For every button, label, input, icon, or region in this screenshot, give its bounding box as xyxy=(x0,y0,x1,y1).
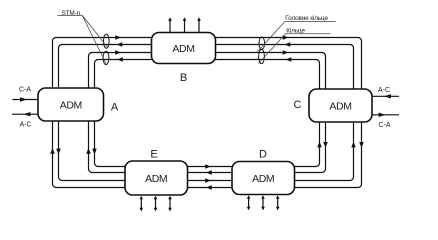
tributary ports node D (3 double-headed arrows) xyxy=(249,198,278,207)
svg-text:ADM: ADM xyxy=(172,43,194,55)
svg-text:C: C xyxy=(294,99,302,111)
arrowheads on A-B wires (top-left segment) xyxy=(115,35,123,62)
port A-C into node C (right side input arrow) xyxy=(372,87,399,99)
svg-text:ADM: ADM xyxy=(252,173,274,185)
svg-text:A: A xyxy=(111,102,119,114)
arrowheads on D-E wires (bottom segment) xyxy=(205,164,212,190)
port A-C out of node A (left side output arrow) xyxy=(12,112,38,129)
ADM node A (box UA) xyxy=(38,88,104,121)
label Кільце (secondary ring) with callout leader xyxy=(259,27,331,64)
svg-text:А-С: А-С xyxy=(378,87,390,94)
ADM node C (box UC) xyxy=(309,89,372,122)
svg-text:Головне кільце: Головне кільце xyxy=(285,14,328,22)
tributary ports node E (3 double-headed arrows) xyxy=(141,199,170,209)
wire outer ring line 2 (closed loop) xyxy=(59,45,354,181)
svg-text:ADM: ADM xyxy=(145,173,167,185)
wire inner ring line 1 (closed loop) xyxy=(89,53,326,173)
fibre bundle marker left lower (ellipse around inner ring pair) xyxy=(103,51,109,64)
wire outer ring line 1 (closed loop) xyxy=(53,38,362,188)
label STM-n with callout leader lines xyxy=(58,10,108,64)
arrowheads on B-C wires (top-right segment) xyxy=(283,35,292,62)
svg-text:STM-n: STM-n xyxy=(62,10,81,17)
port C-A out of node C (right side output arrow) xyxy=(372,113,399,129)
label Головне кільце (main ring) with callout leader xyxy=(258,14,336,51)
fibre bundle marker right lower (ellipse around inner ring pair) xyxy=(259,49,265,63)
svg-text:C-A: C-A xyxy=(19,87,31,94)
svg-text:ADM: ADM xyxy=(329,101,351,113)
ADM node B (box UB) xyxy=(152,33,216,64)
svg-text:D: D xyxy=(259,149,267,161)
tributary ports node B (3 upward arrows) xyxy=(170,20,199,33)
fibre bundle marker left upper (ellipse around outer ring pair) xyxy=(104,34,110,48)
arrowheads on E-A wires (below node A) xyxy=(50,148,97,154)
svg-text:ADM: ADM xyxy=(60,100,82,112)
svg-text:A-C: A-C xyxy=(19,122,31,129)
fibre bundle marker right upper (ellipse around outer ring pair) xyxy=(259,37,265,49)
port C-A into node A (left side input arrow) xyxy=(13,87,39,102)
svg-text:B: B xyxy=(180,72,187,84)
wire inner ring line 2 (closed loop) xyxy=(95,60,320,167)
ADM node D (box UD) xyxy=(232,162,295,195)
svg-text:E: E xyxy=(150,148,157,160)
svg-text:Кільце: Кільце xyxy=(286,27,305,35)
ADM node E (box UE) xyxy=(125,161,188,195)
svg-text:С-А: С-А xyxy=(378,122,390,129)
arrowheads on C-D wires (below node C) xyxy=(317,142,364,148)
